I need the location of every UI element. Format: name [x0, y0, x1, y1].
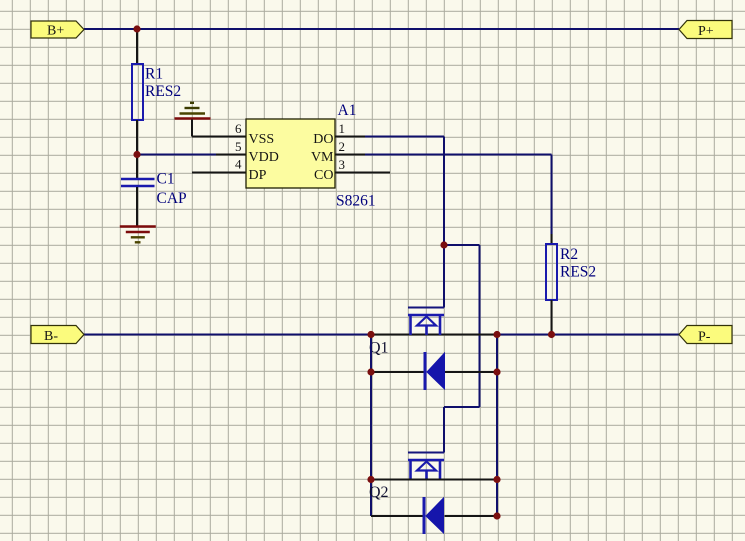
- label A1 designator: [338, 102, 357, 119]
- port P+: [679, 21, 732, 40]
- pin label VDD: [249, 150, 279, 165]
- svg-text:P+: P+: [698, 24, 714, 39]
- resistor R2: [546, 244, 557, 300]
- svg-text:R2: R2: [560, 246, 578, 263]
- wire Q2 channel rail: [371, 479, 497, 481]
- svg-text:S8261: S8261: [336, 193, 376, 210]
- pin label VSS: [249, 132, 275, 147]
- svg-text:VDD: VDD: [249, 150, 279, 165]
- wire ground to VSS pin 6: [192, 120, 246, 137]
- svg-text:4: 4: [235, 157, 242, 172]
- wire right branch down (x497): [496, 335, 498, 517]
- junction node R1/C1/VDD: [133, 151, 140, 158]
- svg-text:CO: CO: [314, 168, 333, 183]
- junction Q2 rail left: [367, 476, 374, 483]
- port P-: [679, 326, 732, 345]
- pin number 6: [235, 121, 242, 136]
- wire net B- (bottom rail): [84, 334, 679, 336]
- svg-text:RES2: RES2: [145, 83, 181, 100]
- label R1 value RES2: [145, 83, 181, 100]
- junction Q1 diode left: [367, 368, 374, 375]
- wire VM to R2: [365, 155, 552, 236]
- svg-text:3: 3: [339, 157, 346, 172]
- label R2 designator: [560, 246, 578, 263]
- pin number 4: [235, 157, 242, 172]
- svg-text:2: 2: [339, 139, 346, 154]
- svg-text:CAP: CAP: [157, 190, 187, 207]
- pin label VM: [311, 150, 334, 165]
- pin number 3: [339, 157, 346, 172]
- svg-text:1: 1: [339, 121, 346, 136]
- label C1 designator: [157, 171, 175, 188]
- transistor Q2 (N-MOSFET): [408, 453, 444, 481]
- label Q2 designator: [369, 484, 389, 501]
- svg-text:VSS: VSS: [249, 132, 275, 147]
- svg-text:5: 5: [235, 139, 242, 154]
- wire left branch down (x371): [370, 335, 372, 517]
- pin number 2: [339, 139, 346, 154]
- svg-text:A1: A1: [338, 102, 357, 119]
- svg-text:DP: DP: [249, 168, 267, 183]
- wire R2 pin to top: [551, 234, 553, 244]
- wire junction to Q2 gate (jog): [444, 245, 480, 453]
- pin number 1: [339, 121, 346, 136]
- svg-text:B+: B+: [47, 24, 64, 39]
- svg-text:VM: VM: [311, 150, 334, 165]
- pin 1 DO stub: [335, 136, 366, 138]
- junction bottom rail / left branch: [367, 331, 374, 338]
- svg-text:C1: C1: [157, 171, 175, 188]
- pin 2 VM stub: [335, 154, 366, 156]
- label R1 designator: [145, 66, 163, 83]
- junction at top rail / R1: [133, 25, 140, 32]
- wire C1 bottom to ground: [136, 187, 138, 226]
- svg-text:R1: R1: [145, 66, 163, 83]
- svg-text:P-: P-: [698, 330, 711, 345]
- wire Q1 body-diode line: [371, 371, 497, 373]
- port B+: [31, 21, 84, 39]
- diode D2 (Q2 body diode): [424, 497, 444, 534]
- pin label DP: [249, 168, 267, 183]
- capacitor C1: [121, 179, 155, 186]
- pin label CO: [314, 168, 333, 183]
- label R2 value RES2: [560, 264, 596, 281]
- junction Q1 diode right: [493, 368, 500, 375]
- label S8261 value: [336, 193, 376, 210]
- svg-text:Q2: Q2: [369, 484, 389, 501]
- pin number 5: [235, 139, 242, 154]
- svg-text:6: 6: [235, 121, 242, 136]
- diode D1 (Q1 body diode): [425, 352, 445, 390]
- wire net B+ (top rail): [84, 28, 679, 30]
- transistor Q1 (N-MOSFET): [408, 308, 444, 336]
- wire DO to Q1 gate: [365, 137, 444, 308]
- pin 4 DP stub: [192, 172, 246, 174]
- resistor R1: [132, 64, 143, 120]
- junction bottom rail / right branch: [493, 331, 500, 338]
- label C1 value CAP: [157, 190, 187, 207]
- wire node to VDD pin 5: [137, 154, 217, 156]
- junction Q2 diode right: [493, 512, 500, 519]
- svg-text:RES2: RES2: [560, 264, 596, 281]
- wire R1 to node A (x137): [136, 120, 138, 155]
- svg-text:B-: B-: [44, 329, 58, 344]
- pin 5 VDD stub: [216, 154, 246, 156]
- wire R2 bottom to rail: [551, 300, 553, 335]
- port B-: [31, 326, 84, 345]
- wire top rail to R1 pin: [136, 29, 138, 64]
- pin label DO: [313, 132, 333, 147]
- power ground symbol at VSS: [175, 103, 211, 119]
- junction bottom rail / R2: [548, 331, 555, 338]
- IC A1 S8261 body: [246, 119, 335, 188]
- junction DO node / Q2 gate branch: [440, 241, 447, 248]
- ground symbol GND below C1: [120, 227, 156, 243]
- pin 3 CO stub: [335, 172, 390, 174]
- wire Q2 body-diode line: [371, 515, 497, 517]
- wire node to C1 top: [136, 155, 138, 179]
- svg-text:DO: DO: [313, 132, 333, 147]
- junction Q2 rail right: [493, 476, 500, 483]
- label Q1 designator: [369, 340, 389, 357]
